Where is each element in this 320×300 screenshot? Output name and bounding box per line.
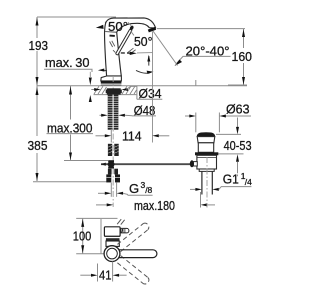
rod ball joint: [108, 161, 115, 167]
arrow up below deck x37: [36, 87, 39, 95]
svg-text:100: 100: [73, 228, 92, 243]
svg-text:50°: 50°: [108, 19, 128, 34]
deck bottom line: [94, 94, 137, 96]
base plate: [101, 81, 122, 84]
handle end knob: [129, 25, 134, 31]
faucet body outline: [105, 18, 156, 76]
max300 underline: [47, 133, 94, 135]
O63 dim: [185, 115, 191, 117]
check valves: [106, 174, 111, 182]
plan head block: [104, 227, 120, 237]
water jet line: [153, 31, 178, 66]
plan dark band: [106, 238, 120, 241]
svg-text:160: 160: [232, 49, 253, 64]
svg-text:G1: G1: [223, 172, 239, 187]
handle lever: [115, 29, 132, 55]
drain plug dome: [197, 132, 216, 136]
svg-text:385: 385: [28, 138, 48, 153]
41 dim: [97, 264, 99, 282]
drain lower body: [197, 155, 217, 169]
svg-text:193: 193: [29, 38, 49, 53]
40-53 top ref: [216, 133, 241, 135]
160 arrow down: [242, 77, 245, 85]
drain nut: [199, 169, 214, 171]
114 extension tick: [110, 129, 112, 143]
drain collar: [195, 152, 218, 155]
second 50 leader: [131, 31, 134, 35]
neck top line: [105, 31, 116, 34]
plan handle: [113, 228, 129, 233]
shank dia arrows (y 115.3): [100, 114, 104, 116]
faucet centerline: [112, 76, 114, 207]
handle motion ticks: [128, 48, 136, 54]
drain centerline: [206, 157, 208, 208]
20-40 underline leader: [177, 56, 231, 63]
160 arrow up: [242, 29, 245, 37]
svg-text:Ø63: Ø63: [226, 101, 250, 116]
max300 extension line x=70.5: [70, 86, 72, 120]
385 ref line: [33, 181, 110, 183]
vertical swivel arrow: [148, 56, 150, 66]
G3/8 extension lines: [110, 183, 112, 197]
20-40 arrowhead: [175, 60, 183, 67]
40-53 bottom ref: [210, 153, 244, 155]
max300 arrow down: [69, 153, 72, 161]
rod left end: [101, 163, 106, 166]
tailpipe: [201, 171, 203, 194]
drain upper body: [198, 143, 213, 153]
body hatch ticks: [110, 41, 116, 53]
plan handle rotation dashes: [117, 219, 124, 224]
svg-text:/4: /4: [245, 177, 252, 187]
hose end ref line: [64, 160, 108, 162]
back wall line: [100, 219, 102, 254]
svg-text:41: 41: [99, 267, 112, 282]
max180 dim: [96, 204, 109, 206]
countertop line: [37, 85, 247, 87]
lever knob: [193, 162, 197, 166]
spout outlet extension line: [152, 32, 154, 143]
solid spout capsule: [119, 250, 157, 258]
50 leader dot line: [128, 22, 131, 25]
drain flange: [197, 137, 215, 143]
deck hatch right: [122, 86, 137, 94]
base dia arrows (y 89.5): [91, 89, 96, 91]
plan neck: [106, 241, 119, 246]
160 extension line: [243, 29, 245, 48]
max180 right tick: [200, 192, 202, 208]
drain: O63 extension lines: [195, 113, 197, 133]
svg-text:/8: /8: [145, 185, 152, 195]
dashed spout down: [117, 256, 148, 284]
locknut: [107, 88, 121, 94]
dashed pull arrow: [121, 52, 133, 54]
spout outlet face: [148, 28, 155, 31]
max30 underline: [44, 69, 92, 72]
pop-up rod horizontal: [101, 163, 191, 165]
svg-text:114: 114: [122, 129, 142, 144]
plan circle inner: [107, 248, 118, 259]
threaded shank: [108, 95, 119, 130]
max300 arrow up: [69, 87, 72, 95]
svg-text:G: G: [129, 181, 139, 196]
50deg arc left segment: [105, 22, 108, 31]
top reference line (193 top): [37, 16, 116, 18]
bottom view: 100 dim: [76, 217, 117, 219]
max30 arrow down x90: [89, 78, 92, 86]
114 dim line: [96, 135, 107, 137]
swivel left arrowhead: [98, 69, 105, 72]
G3/8 dim arrows: [98, 192, 107, 194]
handle pivot band: [109, 35, 115, 37]
flexible hoses: [108, 144, 119, 156]
max30 arrow up x90: [89, 95, 92, 102]
base flange: [101, 76, 122, 81]
plan circle outer: [104, 246, 120, 262]
connector nuts: [108, 169, 112, 175]
left extension line x=37: [36, 17, 38, 38]
arrow down 193 at deck: [36, 77, 39, 85]
160 bottom ref stub: [228, 84, 247, 86]
svg-text:max.180: max.180: [134, 198, 175, 213]
swivel arc arrow: [136, 70, 151, 73]
svg-text:max. 30: max. 30: [45, 55, 90, 70]
dashed spout up: [117, 223, 148, 251]
arrow up 193: [36, 18, 39, 26]
50deg arc left arrowhead: [96, 25, 104, 29]
G1 1/4 dim: [190, 188, 197, 190]
right ref line (spout outlet): [157, 28, 245, 30]
deck hatch left: [94, 86, 107, 94]
leader to O34: [127, 86, 137, 99]
svg-text:40-53: 40-53: [224, 138, 252, 153]
svg-text:50°: 50°: [134, 34, 153, 49]
385 arrow down: [36, 173, 39, 181]
